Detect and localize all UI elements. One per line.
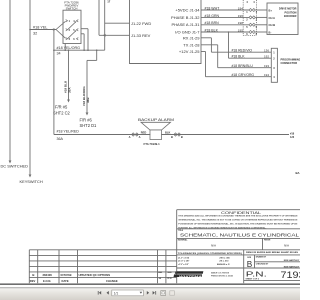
switch arm upper	[68, 22, 76, 30]
wire #18 BRN 198	[201, 24, 249, 26]
svg-text:<1'0" ± 1/2": <1'0" ± 1/2"	[178, 263, 189, 266]
svg-text:.XX ± .010: .XX ± .010	[219, 261, 229, 263]
connector B diamond right	[177, 133, 180, 136]
wire pin 2 to encoder	[256, 16, 267, 18]
backup alarm body	[150, 130, 162, 140]
svg-text:REMOVE BURRS AND BREAK SHARP E: REMOVE BURRS AND BREAK SHARP EDGES	[246, 251, 299, 254]
drive motor position encoder box	[267, 3, 298, 35]
revision row y=260.9	[29, 260, 176, 262]
revision row y=271.9	[29, 271, 176, 273]
toolbar prev-page button	[107, 291, 109, 295]
svg-text:PROGRAMMING: PROGRAMMING	[281, 57, 301, 61]
svg-text:32: 32	[33, 31, 37, 35]
arrow to KEYSWITCH	[29, 175, 32, 178]
wire +12V drop	[205, 52, 207, 77]
svg-text:1/1: 1/1	[114, 291, 119, 295]
svg-text:F/R #5: F/R #5	[55, 105, 68, 110]
svg-text:FTA 71939-1: FTA 71939-1	[144, 142, 161, 146]
svg-text:B: B	[247, 260, 253, 269]
svg-text:SWITCH: SWITCH	[66, 7, 78, 11]
connector pin 6 diamond left	[249, 31, 252, 34]
svg-text:MANUF. U.S. PATS IN: MANUF. U.S. PATS IN	[211, 271, 230, 274]
svg-text:POSSESSION OF WHITEMAN INTERNA: POSSESSION OF WHITEMAN INTERNATIONAL, IN…	[178, 222, 298, 225]
svg-text:P.N.: P.N.	[246, 272, 267, 279]
svg-text:J1-33 REV: J1-33 REV	[131, 33, 151, 38]
toolbar page input 1/1	[112, 290, 144, 296]
svg-text:#18 YEL/RED: #18 YEL/RED	[57, 130, 80, 134]
revision column x=29.3	[28, 250, 30, 283]
wire into J1-33 REV	[99, 34, 130, 36]
svg-text:FINISH: FINISH	[264, 240, 271, 242]
svg-text:SHT2 C2: SHT2 C2	[53, 110, 71, 115]
svg-text:TITLE: TITLE	[178, 230, 184, 232]
wire #18 YEL/ORG 34 (horizontal)	[54, 49, 105, 51]
wire #18 BLU/ORG 36B (vertical)	[86, 60, 88, 112]
connector A diamond right	[135, 133, 138, 136]
svg-text:I/O GND J1-7: I/O GND J1-7	[175, 29, 200, 34]
svg-text:PHASE A J1-31: PHASE A J1-31	[171, 22, 200, 27]
connector A diamond left	[132, 133, 135, 136]
toolbar last-page button	[153, 291, 155, 295]
junction keyswitch/YEL-32	[29, 29, 31, 31]
revision column x=165.9	[165, 250, 167, 283]
toolbar first-page button	[99, 291, 101, 295]
connector pin 5 diamond right	[252, 23, 255, 26]
wire F/R6 drop upper	[96, 50, 98, 60]
svg-text:CH B: CH B	[269, 23, 276, 27]
connector pin 1 diamond left	[249, 9, 252, 12]
wire #18 RED/VIO 136	[211, 51, 271, 53]
revision column x=59	[58, 250, 60, 283]
svg-text:6249: 6249	[168, 271, 172, 274]
svg-text:B: B	[171, 135, 173, 139]
wire terminal4 down	[87, 29, 89, 51]
svg-text:E.O.N.: E.O.N.	[43, 279, 51, 283]
backup alarm body (over wire)	[150, 130, 161, 139]
svg-text:194: 194	[238, 6, 243, 10]
svg-text:194: 194	[264, 73, 269, 77]
connector pin 1 diamond right	[252, 9, 255, 12]
wire #18 BLK 195	[201, 31, 249, 33]
svg-text:#18 RED/VIO: #18 RED/VIO	[232, 48, 253, 52]
divider tolerance/size	[243, 250, 245, 283]
wire #18 BLK 192	[229, 57, 272, 59]
svg-text:THIS DRAWING AND ALL INFORMATI: THIS DRAWING AND ALL INFORMATION CONTAIN…	[178, 214, 298, 217]
svg-text:RED: RED	[141, 131, 147, 135]
divider material/finish	[262, 238, 264, 249]
svg-text:UPDATED QC OPTIONS: UPDATED QC OPTIONS	[79, 273, 111, 277]
svg-text:CHECKED BY: CHECKED BY	[256, 264, 269, 266]
Whiteman logo	[174, 271, 204, 277]
svg-text:DATE: DATE	[62, 279, 69, 283]
wire keyswitch feed (vertical)	[29, 0, 31, 175]
svg-text:#18 BRN: #18 BRN	[205, 21, 220, 25]
switch terminals left 1,2,3	[66, 20, 68, 22]
svg-text:POSITION: POSITION	[285, 11, 297, 14]
arrow on YEL wire	[51, 28, 54, 31]
svg-text:N/A: N/A	[211, 243, 216, 247]
svg-text:F/R #6: F/R #6	[80, 117, 93, 122]
svg-text:DC SWITCHED: DC SWITCHED	[1, 164, 29, 169]
revision row y=255.4	[29, 254, 176, 256]
svg-text:B-: B-	[269, 30, 272, 34]
svg-text:PHASE B J1-32: PHASE B J1-32	[171, 15, 200, 20]
svg-text:±1-1" ± 1/16: ±1-1" ± 1/16	[178, 258, 190, 260]
svg-text:36B: 36B	[86, 97, 90, 103]
toolbar snapshot icon	[161, 291, 166, 296]
wire switch bottom stub	[64, 44, 66, 51]
wire BLK drop	[228, 32, 230, 58]
svg-text:REV: REV	[30, 279, 36, 283]
divider drawn/checked	[255, 261, 301, 263]
svg-text:INTERNATIONAL, INC. THE DRAWIN: INTERNATIONAL, INC. THE DRAWING IS NOT T…	[178, 218, 298, 221]
svg-text:#18 GRN: #18 GRN	[205, 14, 220, 18]
svg-text:#18 BLK: #18 BLK	[232, 54, 246, 58]
svg-text:7193: 7193	[281, 270, 301, 280]
svg-text:#18 GRY/ORG: #18 GRY/ORG	[232, 73, 255, 77]
wire terminal5 down	[83, 34, 85, 50]
svg-text:192: 192	[264, 54, 269, 58]
wire REV feed from top	[98, 0, 100, 35]
connector B diamond left	[174, 133, 177, 136]
wire backup alarm feed #18 YEL/RED 36A	[54, 134, 289, 136]
svg-text:+5VDC J1-34: +5VDC J1-34	[175, 7, 200, 12]
wire RX drop	[210, 38, 212, 52]
svg-text:J1-22 FWD: J1-22 FWD	[131, 21, 151, 26]
svg-text:SHT2 D1: SHT2 D1	[80, 123, 98, 128]
svg-text:36A: 36A	[57, 137, 64, 141]
wire +12V out	[201, 51, 206, 53]
svg-text:193: 193	[264, 64, 269, 68]
svg-text:35A: 35A	[68, 87, 72, 93]
connector pin 2 diamond left	[249, 16, 252, 19]
line under title	[177, 237, 300, 239]
svg-text:A: A	[129, 135, 131, 139]
controller box U1 (cut off at top)	[130, 0, 202, 64]
svg-text:KEYSWITCH: KEYSWITCH	[20, 179, 43, 184]
svg-text:BA: BA	[296, 171, 300, 175]
svg-text:#18: #18	[290, 133, 295, 136]
programming connector box	[271, 48, 277, 82]
arrow on J1-33 wire	[103, 34, 106, 37]
line top of PN band	[177, 267, 300, 269]
svg-text:dft: dft	[159, 277, 162, 280]
svg-text:BLK: BLK	[165, 131, 170, 135]
svg-text:RX J1-29: RX J1-29	[183, 35, 200, 40]
wire terminal4 out	[81, 28, 88, 30]
switch S1 FTA 72036 FWD/REV	[63, 10, 81, 43]
svg-text:#18 BLK: #18 BLK	[205, 28, 219, 32]
svg-text:#18 YEL: #18 YEL	[33, 25, 48, 29]
wire pin 6 to encoder	[256, 31, 267, 33]
revision column x=37.7	[37, 250, 39, 283]
wire pin 5 to encoder	[256, 24, 267, 26]
svg-text:N/A: N/A	[284, 243, 289, 247]
svg-text:6249: 6249	[158, 271, 162, 274]
wire RX out	[201, 37, 211, 39]
line top of tolerance/revision band	[29, 249, 300, 251]
wire terminal5 out	[81, 33, 84, 35]
svg-text:CONNECTOR: CONNECTOR	[281, 61, 298, 65]
connector pin 6 diamond right	[252, 31, 255, 34]
arrow to F/R #6	[86, 113, 89, 116]
divider size/drawn	[254, 255, 256, 268]
backup alarm horn symbol	[141, 122, 171, 130]
junction YEL-ORG/downleg	[53, 49, 55, 51]
revision column x=157.5	[157, 250, 159, 283]
switch arm lower	[68, 31, 76, 39]
svg-text:TX J1-28: TX J1-28	[183, 42, 200, 47]
sheet bottom border	[0, 283, 300, 285]
wire #18 YEL 32	[30, 29, 56, 31]
junction F/R6 branch	[96, 49, 98, 51]
svg-text:ENCODER: ENCODER	[284, 15, 297, 18]
svg-text:+12V J1-25: +12V J1-25	[179, 49, 200, 54]
wire into J1-22 FWD	[105, 22, 130, 24]
svg-text:196: 196	[238, 14, 243, 18]
svg-text:.XXX ± .005: .XXX ± .005	[219, 258, 231, 260]
switch terminals right 4,5,6	[77, 20, 79, 22]
svg-text:CH A: CH A	[269, 16, 276, 20]
svg-text:B: B	[181, 135, 183, 139]
wire #18 WHT 194	[201, 9, 249, 11]
svg-text:123: 123	[290, 136, 295, 139]
wire #18 BLU 35A (vertical)	[68, 50, 70, 99]
wire YEL down leg	[53, 30, 55, 135]
junction terminal5 drop	[83, 49, 85, 51]
svg-text:A: A	[139, 135, 141, 139]
junction F/R5 drop	[68, 49, 70, 51]
svg-text:DRIVE MOTOR: DRIVE MOTOR	[279, 8, 297, 11]
revision column x=77.5	[77, 250, 79, 283]
wire YEL-32 to terminal 3 (diagonal)	[56, 30, 66, 39]
svg-text:CHANGE: CHANGE	[106, 279, 118, 283]
wire F/R6 jog	[87, 59, 97, 61]
svg-text:#18 WHT: #18 WHT	[205, 6, 221, 10]
line under tolerance header	[177, 254, 300, 256]
svg-text:07/07/99: 07/07/99	[61, 273, 72, 277]
line under paragraph	[177, 228, 300, 230]
svg-text:PRINCE GROVE, IL 60140: PRINCE GROVE, IL 60140	[211, 274, 233, 277]
junction stub/YEL-ORG	[64, 49, 66, 51]
svg-text:B: B	[32, 273, 34, 277]
connector pin 5 diamond left	[249, 23, 252, 26]
wire DC switched feed (vertical)	[9, 0, 11, 161]
arrow to F/R #5	[67, 100, 70, 103]
toolbar top border	[0, 287, 300, 289]
line under sheet row	[244, 280, 300, 282]
svg-text:195: 195	[238, 28, 243, 32]
svg-text:282406: 282406	[43, 273, 53, 277]
arrow to DC SWITCHED	[9, 161, 12, 164]
svg-text:#18 BRN/BLU: #18 BRN/BLU	[232, 64, 254, 68]
wire TX drop	[217, 45, 219, 68]
connector P2 right edge (dashed)	[256, 0, 258, 36]
svg-text:BACKUP ALARM: BACKUP ALARM	[138, 118, 174, 122]
svg-text:SCHEMATIC, NAUTILUS E CYLINDRI: SCHEMATIC, NAUTILUS E CYLINDRICAL	[180, 233, 299, 239]
revision row y=277.4	[29, 276, 176, 278]
junction BLK branch	[228, 31, 230, 33]
title block confidential box	[177, 209, 300, 211]
toolbar next-page button	[147, 291, 149, 295]
svg-text:#18 YEL/ORG: #18 YEL/ORG	[57, 46, 81, 50]
svg-text:ANGLES ± .5°: ANGLES ± .5°	[217, 263, 230, 266]
wire J1-22 riser from top	[104, 0, 106, 50]
svg-text:WHITEMAN: WHITEMAN	[179, 275, 206, 279]
svg-text:DRAWN BY: DRAWN BY	[256, 256, 267, 259]
connector P2 left edge (dashed)	[242, 0, 244, 36]
svg-text:CL10: CL10	[167, 278, 171, 280]
svg-text:MATERIAL: MATERIAL	[178, 239, 188, 242]
toolbar extra icon	[170, 291, 175, 295]
wire pin 1 to encoder	[256, 9, 267, 11]
wire #18 BRN/BLU 193	[218, 67, 272, 69]
svg-text:17: 17	[107, 0, 111, 3]
connector pin 2 diamond right	[252, 16, 255, 19]
wire #18 GRN 196	[201, 16, 249, 18]
svg-text:198: 198	[238, 21, 243, 25]
wire YEL-32 to terminal 1 (diagonal)	[56, 21, 66, 29]
connector P2 bottom edge (dashed)	[243, 35, 256, 37]
wire TX out	[201, 44, 218, 46]
wire #18 GRY/ORG 194	[206, 76, 272, 78]
revision row y=266.4	[29, 265, 176, 267]
svg-text:±1'-0" ± 1/4": ±1'-0" ± 1/4"	[178, 260, 189, 263]
junction terminal4 drop	[87, 49, 89, 51]
svg-text:136: 136	[264, 48, 269, 52]
svg-text:B+: B+	[269, 8, 273, 12]
svg-text:34: 34	[57, 52, 61, 56]
